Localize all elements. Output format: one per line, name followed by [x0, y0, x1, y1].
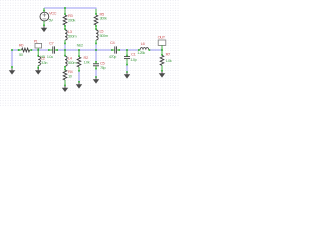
- wire seg R1 to IN node: [32, 49, 49, 51]
- node rail junction x65: [64, 7, 66, 9]
- wire seg node96 to C4: [96, 49, 112, 51]
- svg-text:470p: 470p: [109, 54, 117, 59]
- wire seg C1 to node65: [57, 49, 79, 51]
- ground under C5: [95, 76, 97, 78]
- wire rail drop to R5: [95, 8, 97, 10]
- wire C6 to ground: [126, 65, 128, 72]
- inductor L2: [37, 50, 40, 69]
- resistor R5: [94, 9, 98, 30]
- node out corner: [161, 49, 163, 51]
- inductor L3: [64, 30, 67, 44]
- ground at left column: [11, 66, 13, 69]
- wire C5 to ground: [95, 69, 97, 77]
- voltage source V1 VCC: [40, 8, 49, 26]
- node signal x65: [64, 49, 66, 51]
- capacitor C7 series: [48, 46, 58, 53]
- wire seg node79 to node96: [79, 49, 96, 51]
- wire node96 drop: [95, 44, 97, 50]
- svg-text:P1: P1: [34, 40, 38, 44]
- svg-text:200k: 200k: [68, 17, 75, 22]
- svg-text:NE2: NE2: [77, 43, 83, 47]
- svg-text:OUT: OUT: [158, 35, 166, 40]
- wire middle signal line seg A: [12, 49, 19, 51]
- capacitor C4 series: [111, 46, 120, 53]
- svg-text:1.0u: 1.0u: [47, 54, 53, 59]
- wire input ground drop: [11, 50, 13, 67]
- ground under R4: [64, 86, 66, 88]
- wire seg C4 to node127: [119, 49, 138, 51]
- ground under R7: [161, 72, 163, 74]
- node signal x96: [95, 49, 97, 51]
- svg-text:1.0k: 1.0k: [166, 58, 172, 63]
- svg-text:1.0k: 1.0k: [84, 60, 90, 65]
- resistor R3: [63, 8, 67, 30]
- node signal x79: [78, 49, 80, 51]
- wire VCC rail: [44, 7, 96, 9]
- svg-text:1.25k: 1.25k: [137, 50, 145, 55]
- resistor R4: [63, 69, 67, 86]
- wire seg L6 to out corner: [150, 49, 162, 51]
- resistor R7 load: [160, 50, 164, 72]
- port IN flag: [35, 43, 42, 50]
- node input left corner: [11, 49, 13, 51]
- ground under C6: [126, 71, 128, 73]
- wire R6 to ground: [78, 72, 80, 83]
- svg-text:3.3n: 3.3n: [41, 60, 47, 65]
- capacitor C5 shunt: [93, 61, 99, 69]
- ground under V1: [43, 26, 45, 28]
- node at IN junction: [37, 49, 39, 51]
- svg-text:VCC: VCC: [49, 11, 57, 16]
- svg-text:500m: 500m: [68, 60, 77, 65]
- wire node96 down to C5: [95, 50, 97, 62]
- inductor L5: [95, 30, 98, 44]
- wire node65 collector drop: [64, 44, 66, 50]
- svg-text:500m: 500m: [100, 33, 109, 38]
- inductor L4: [64, 50, 67, 70]
- node signal x127: [126, 49, 128, 51]
- ground under L2: [37, 69, 39, 71]
- svg-text:300k: 300k: [100, 16, 107, 21]
- resistor R0 horizontal: [18, 48, 32, 52]
- svg-text:500m: 500m: [68, 34, 77, 39]
- ground under R2: [78, 81, 80, 83]
- capacitor C6 shunt: [124, 50, 130, 65]
- port OUT flag: [158, 40, 166, 50]
- inductor L6 series: [138, 48, 150, 51]
- resistor R2: [77, 50, 81, 72]
